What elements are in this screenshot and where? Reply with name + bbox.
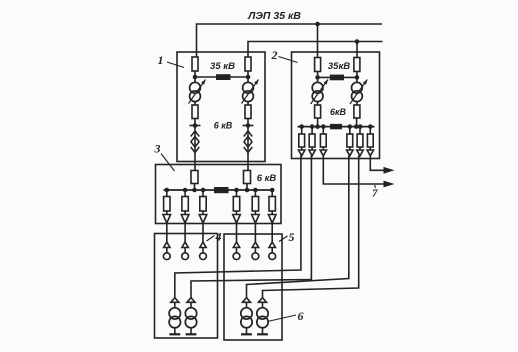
svg-text:6 кВ: 6 кВ — [214, 121, 233, 131]
feeder plug symbol box3-3 — [199, 215, 207, 224]
arrow outgoing feeder 3 — [384, 181, 395, 188]
wire bus3 to feeder 4 — [236, 190, 238, 197]
wire feeder 1 breaker to plug — [301, 147, 303, 150]
node bus2 feeder 3 — [321, 124, 326, 129]
wire bus2 to feeder 6 breaker — [369, 127, 371, 134]
node bus2 feeder 2 — [310, 124, 315, 129]
cable coupler circle box4 line 1 — [163, 253, 170, 260]
cable coupler circle box5 line 4 — [233, 253, 240, 260]
cable coupler triangle T6 — [187, 298, 195, 303]
feeder plug symbol box3-6 — [268, 215, 276, 224]
cable coupler triangle box5 line 6 — [269, 242, 275, 248]
svg-text:3: 3 — [154, 142, 161, 156]
feeder plug symbol box3-1 — [163, 215, 171, 224]
wire bus2 to feeder 1 breaker — [301, 127, 303, 134]
node bus2 feeder 4 — [348, 124, 353, 129]
wire T3 to 6kV switch — [317, 101, 319, 105]
node sub2 left 35kV — [315, 75, 320, 80]
svg-text:6: 6 — [298, 309, 304, 323]
svg-text:7: 7 — [372, 188, 378, 200]
feeder breaker box3-4 — [233, 197, 239, 212]
feeder plug symbol sub2-2 — [309, 150, 315, 156]
cable coupler triangle box4 line 3 — [200, 242, 206, 248]
leader line for label 3 — [161, 154, 175, 172]
leader line for label 7 — [374, 185, 377, 188]
switch sub2 right 6kV — [354, 105, 360, 118]
breaker sub1 35kV link (closed) — [216, 74, 231, 80]
node bus2 feeder 6 — [368, 124, 373, 129]
cable coupler triangle box5 line 4 — [233, 242, 239, 248]
wire bus3 to feeder 1 — [166, 190, 168, 197]
distribution point 3 box — [156, 165, 282, 224]
cable coupler triangle T7 — [243, 298, 251, 303]
node bus3 feeder 6 — [270, 188, 275, 193]
wire feeder 2 to plug — [184, 211, 186, 215]
wire sub1 left 6kV down — [194, 119, 196, 171]
substation 1 box — [177, 52, 265, 162]
wire feeder 3 breaker to plug — [322, 147, 324, 150]
wire T8 triangle to windings — [262, 302, 264, 308]
wire feeder 2 breaker to plug — [311, 147, 313, 150]
transformer T2 (sub1 right) — [243, 82, 254, 93]
wire sub1 right fuse to transformer — [247, 71, 249, 83]
feeder breaker sub2-3 — [320, 134, 326, 147]
wire feeder sub2-5 to transformer T8 — [263, 156, 359, 298]
wire sub2 right fuse to transformer — [356, 72, 358, 84]
transformer T4 (sub2 right) — [352, 82, 363, 93]
wire T6 to terminal bar — [190, 328, 192, 335]
wire bus3 to feeder 6 — [271, 190, 273, 197]
wire feeder 4 to plug — [236, 211, 238, 215]
svg-text:6 кВ: 6 кВ — [257, 173, 277, 184]
wire feeder 1 to plug — [166, 211, 168, 215]
node bus3 feeder 2 — [183, 188, 188, 193]
wire feeder 1 down to section box — [166, 223, 168, 242]
feeder breaker box3-1 — [164, 197, 170, 212]
bus box3 6kV — [164, 189, 274, 191]
regulation arrow T1 — [189, 80, 206, 104]
terminal bar T8 — [257, 333, 268, 335]
cable coupler circle box5 line 6 — [269, 253, 276, 260]
wire T1 to 6kV switch — [194, 101, 196, 105]
wire bus3 to feeder 3 — [202, 190, 204, 197]
wire: drop to substation 2 right input — [356, 42, 358, 58]
node bus2 input right — [354, 124, 359, 129]
cable coupler stem box4 line 2 — [184, 248, 186, 253]
wire feeder 4 breaker to plug — [349, 147, 351, 150]
node sub2 right 35kV — [355, 75, 360, 80]
node: tap on circuit 1 for substation 2 — [315, 22, 320, 27]
node bus3 input left — [192, 188, 197, 193]
section 5 box — [224, 234, 282, 340]
section 4 box — [155, 234, 218, 339]
wire feeder 3 down to section box — [202, 223, 204, 242]
disconnector sub1 right 35kV — [245, 57, 251, 71]
wire bus2 to feeder 5 breaker — [359, 127, 361, 134]
terminal bar T5 — [169, 333, 180, 335]
svg-text:35 кВ: 35 кВ — [210, 61, 235, 72]
transformer T5 — [169, 308, 180, 319]
feeder plug symbol box3-4 — [233, 215, 241, 224]
wire feeder sub2-1 to transformer T5 — [175, 156, 301, 298]
transformer T6 — [185, 308, 196, 319]
leader line for label 1 — [167, 62, 184, 68]
wire sub2 right to 6kV bus — [356, 118, 358, 127]
regulation arrow T4 — [350, 80, 367, 105]
feeder breaker sub2-2 — [309, 134, 315, 147]
breaker bus3 section (closed) — [214, 187, 229, 193]
node bus3 feeder 5 — [253, 188, 258, 193]
node bus3 input right — [245, 188, 250, 193]
wire: sub1 35kV link — [195, 76, 248, 78]
wire feeder 3 to plug — [202, 211, 204, 215]
transformer T8 — [257, 308, 268, 319]
cable coupler stem box4 line 3 — [202, 248, 204, 253]
switch sub2 left 6kV — [315, 105, 321, 118]
svg-text:5: 5 — [289, 230, 295, 244]
feeder plug symbol sub2-1 — [299, 150, 305, 156]
cable coupler triangle T5 — [171, 298, 179, 303]
wire sub2 left to 6kV bus — [317, 118, 319, 127]
wire bus2 to feeder 4 breaker — [349, 127, 351, 134]
feeder breaker sub2-5 — [357, 134, 363, 147]
node bus2 input left — [315, 124, 320, 129]
feeder breaker box3-6 — [269, 197, 275, 212]
wire T7 to terminal bar — [246, 328, 248, 335]
wire sub1 left fuse to transformer — [194, 71, 196, 83]
regulation arrow T3 — [311, 80, 328, 105]
node: tap on circuit 2 for substation 2 — [355, 39, 360, 44]
arrow outgoing feeder 6 — [384, 167, 395, 174]
transformer T7 — [241, 308, 252, 319]
feeder plug symbol sub2-6 — [367, 150, 373, 156]
cable coupler circle box4 line 2 — [182, 253, 189, 260]
wire: sub2 35kV link — [318, 76, 357, 78]
transformer T3 (sub2 left) — [312, 82, 323, 93]
wire feeder 2 down to section box — [184, 223, 186, 242]
breaker bus2 section (closed) — [330, 124, 342, 129]
cable coupler stem box5 line 5 — [254, 248, 256, 253]
wire: drop to substation 2 left input — [317, 24, 319, 58]
wire T5 triangle to windings — [174, 302, 176, 308]
wire: 35kV line circuit 2 — [248, 42, 383, 58]
node bus2 feeder 1 — [299, 124, 304, 129]
cable coupler triangle box4 line 1 — [164, 242, 170, 248]
cable coupler circle box4 line 3 — [200, 253, 207, 260]
wire bus3 to feeder 5 — [254, 190, 256, 197]
node sub1 right 6kV bus tick — [243, 125, 254, 127]
wire feeder sub2-4 to transformer T7 — [247, 156, 349, 298]
cable coupler stem box5 line 6 — [271, 248, 273, 253]
switch sub1 right 6kV — [245, 105, 251, 119]
disconnector sub2 left 35kV — [315, 58, 321, 72]
cable coupler stem box5 line 4 — [236, 248, 238, 253]
cable coupler circle box5 line 5 — [252, 253, 259, 260]
wire feeder sub2-3 outgoing — [323, 156, 384, 185]
cable coupler stem box4 line 1 — [166, 248, 168, 253]
node bus2 feeder 5 — [358, 124, 363, 129]
svg-text:1: 1 — [158, 53, 164, 67]
feeder plug symbol box3-5 — [252, 215, 260, 224]
svg-text:ЛЭП 35 кВ: ЛЭП 35 кВ — [247, 10, 301, 22]
wire bus2 to feeder 3 breaker — [322, 127, 324, 134]
svg-text:2: 2 — [271, 48, 278, 62]
wire bus2 to feeder 2 breaker — [311, 127, 313, 134]
wire box3 left breaker to bus — [194, 184, 196, 191]
feeder plug symbol box3-2 — [181, 215, 189, 224]
disconnector sub1 left 35kV — [192, 57, 198, 71]
leader line for label 2 — [279, 57, 298, 63]
feeder plug symbol sub2-3 — [320, 150, 326, 156]
reserve line double-arrow sub1 right — [244, 131, 253, 137]
wire feeder 5 breaker to plug — [359, 147, 361, 150]
wire feeder sub2-2 to transformer T6 — [191, 156, 311, 298]
node bus3 feeder 4 — [234, 188, 239, 193]
reserve line double-arrow sub1 left — [191, 131, 200, 137]
disconnector sub2 right 35kV — [354, 58, 360, 72]
wire feeder 6 breaker to plug — [369, 147, 371, 150]
wire feeder 6 down to section box — [271, 223, 273, 242]
wire sub2 left fuse to transformer — [317, 72, 319, 84]
feeder breaker sub2-6 — [367, 134, 373, 147]
switch sub1 left 6kV — [192, 105, 198, 119]
wire T4 to 6kV switch — [356, 101, 358, 105]
wire T5 to terminal bar — [174, 328, 176, 335]
svg-text:35кВ: 35кВ — [328, 61, 350, 72]
wire feeder 5 down to section box — [254, 223, 256, 242]
wire feeder sub2-6 outgoing — [370, 156, 384, 171]
wire feeder 6 to plug — [271, 211, 273, 215]
wire T7 triangle to windings — [246, 302, 248, 308]
leader line for label 4 — [207, 236, 215, 242]
wire feeder 5 to plug — [254, 211, 256, 215]
leader line for label 6 — [268, 315, 297, 322]
wire T2 to 6kV switch — [247, 101, 249, 105]
regulation arrow T2 — [242, 80, 259, 104]
incoming breaker box3 right — [244, 171, 251, 184]
wire bus3 to feeder 2 — [184, 190, 186, 197]
breaker sub2 35kV link (closed) — [330, 75, 344, 81]
node sub1 right 35kV — [246, 75, 251, 80]
feeder plug symbol sub2-4 — [347, 150, 353, 156]
wire: 35kV line circuit 1 — [197, 24, 383, 57]
node bus3 feeder 1 — [165, 188, 170, 193]
substation 2 box — [292, 52, 380, 159]
wire T6 triangle to windings — [190, 302, 192, 308]
svg-text:4: 4 — [215, 230, 222, 244]
cable coupler triangle box5 line 5 — [252, 242, 258, 248]
feeder breaker box3-3 — [200, 197, 206, 212]
feeder breaker sub2-1 — [299, 134, 305, 147]
cable coupler triangle box4 line 2 — [182, 242, 188, 248]
cable coupler triangle T8 — [259, 298, 267, 303]
wire box3 right breaker to bus — [246, 184, 248, 191]
feeder plug symbol sub2-5 — [357, 150, 363, 156]
bus sub2 6kV — [298, 126, 375, 128]
terminal bar T6 — [186, 333, 197, 335]
transformer T1 (sub1 left) — [190, 82, 201, 93]
feeder breaker box3-2 — [182, 197, 188, 212]
feeder breaker sub2-4 — [347, 134, 353, 147]
wire sub1 right 6kV down — [247, 119, 249, 171]
node sub1 left 6kV bus tick — [190, 125, 201, 127]
node bus3 feeder 3 — [201, 188, 206, 193]
leader line for label 5 — [279, 236, 288, 242]
terminal bar T7 — [241, 333, 252, 335]
wire T8 to terminal bar — [262, 328, 264, 335]
node sub1 left 35kV — [193, 75, 198, 80]
wire feeder 4 down to section box — [236, 223, 238, 242]
svg-text:6кВ: 6кВ — [330, 107, 347, 117]
feeder breaker box3-5 — [252, 197, 258, 212]
incoming breaker box3 left — [191, 171, 198, 184]
